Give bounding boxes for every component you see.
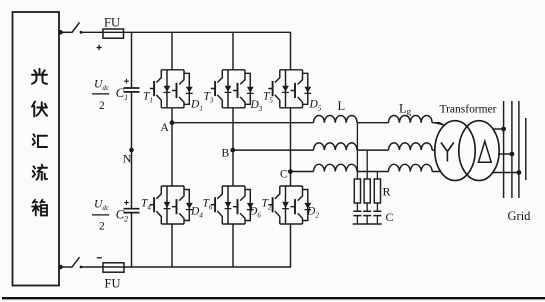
inductor L phase B [314,143,358,150]
svg-text:FU: FU [105,277,121,291]
wire: T6 emitter to DC- bus [232,224,234,267]
switch S+ contact dot [80,31,83,34]
polarity + mark of C2 [124,200,129,205]
svg-text:2: 2 [99,100,105,112]
wire: T2 collector from node C [290,172,292,187]
resistor R phase C [374,179,380,203]
inductor Lg phase C [389,164,433,171]
svg-text:C: C [386,210,394,224]
svg-text:T1: T1 [143,91,153,105]
fuse FU (bottom) [103,263,124,272]
polarity - mark (bottom bus) [97,257,102,259]
IGBT module T6 with antiparallel diode D6 [211,186,254,224]
wire: DC- bus from box to switch [59,266,72,268]
svg-text:2: 2 [99,221,105,233]
delta symbol [479,141,492,162]
wire: T2 emitter to DC- bus [290,224,292,267]
node dot grid phase 1 [501,127,506,132]
wire: C2 to DC- bus [131,213,133,267]
capacitor C2 [124,209,140,213]
wire: T1 leg from DC+ bus [171,32,173,70]
svg-text:A: A [161,122,170,134]
switch S+ blade [72,23,80,34]
svg-text:B: B [222,148,230,160]
node B dot [230,148,235,153]
wire: star point bus [353,223,382,225]
wire: R to C stub phase B [366,203,368,211]
svg-text:C: C [280,169,288,181]
inductor L phase A [314,116,358,123]
wire: DC midlink C1 to C2 through node N [131,92,133,209]
wire: T5 leg from DC+ bus [290,32,292,70]
node C dot [288,169,293,174]
svg-text:D2: D2 [306,206,319,220]
node dot grid phase 3 [517,170,522,175]
resistor R phase B [364,179,370,203]
transformer secondary winding circle [459,121,499,181]
IGBT module T5 with antiparallel diode D5 [268,70,311,108]
wire: DC+ bus from box to switch [59,31,72,33]
svg-text:D5: D5 [309,99,322,113]
label 箱 [32,200,47,216]
wire: T4 emitter to DC- bus [171,224,173,267]
wire: transformer tap to grid phase 3 [493,172,519,174]
node dot grid phase 2 [510,152,515,157]
wire: transformer tap to grid phase 1 [493,128,504,130]
wire: T6 collector from node B [232,150,234,186]
svg-text:T4: T4 [141,198,151,212]
capacitor C phase C [373,211,381,215]
capacitor C1 [124,88,140,92]
svg-text:T3: T3 [204,91,214,105]
capacitor C phase B [363,211,371,215]
svg-text:T2: T2 [262,198,272,212]
capacitor C phase A [353,211,361,215]
wire: DC+ bus through fuse to T5 leg [81,31,291,33]
wire: RC tap phase B [366,150,368,179]
PV combiner box (光伏汇流箱) [13,12,60,286]
svg-text:R: R [383,184,391,198]
grid bus bar 2 [511,101,513,198]
switch S- blade [72,257,80,268]
svg-text:D4: D4 [190,206,203,220]
svg-text:FU: FU [104,16,120,30]
label 汇 [33,134,47,147]
polarity + mark (top bus) [97,45,102,50]
wire: DC midpoint branch upper (bus to C1) [131,32,133,88]
Y (wye) symbol [441,143,454,162]
svg-text:L: L [338,99,346,113]
wire: transformer tap to grid phase 2 [499,153,512,155]
node A dot [170,120,175,125]
svg-text:Udc: Udc [94,199,110,213]
IGBT module T3 with antiparallel diode D3 [211,70,254,108]
grid bus bar 1 [503,101,505,198]
wire: DC- bus through fuse to T2 leg [81,266,291,268]
switch S- contact dot [80,266,83,269]
wire: R to C stub phase A [356,203,358,211]
polarity + mark of C1 [124,79,129,84]
IGBT module T2 with antiparallel diode D2 [268,186,311,224]
fuse FU (top) [103,29,124,38]
inductor L phase C [314,164,358,171]
IGBT module T4 with antiparallel diode D4 [150,186,193,224]
wire: T3 leg from DC+ bus [232,32,234,70]
wire: R to C stub phase C [376,203,378,211]
wire: RC tap phase C [376,172,378,180]
node: junction dot at box - terminal [58,265,63,270]
wire: T1 emitter to node A [171,108,173,123]
svg-text:D6: D6 [248,206,261,220]
label 流 [33,165,47,180]
inductor Lg phase B [389,143,433,150]
wire: capacitor stubs to star point [357,216,377,224]
node N dot [129,148,134,153]
label 光 [32,69,47,84]
wire: RC tap phase A [356,123,358,179]
wire: T3 emitter to node B [232,108,234,150]
IGBT module T1 with antiparallel diode D1 [150,70,193,108]
svg-text:C2: C2 [116,208,128,224]
node: junction dot at box + terminal [58,30,63,35]
page rule at bottom [2,297,545,299]
svg-text:Lg: Lg [399,102,412,117]
svg-text:N: N [123,152,132,166]
svg-text:Transformer: Transformer [440,102,497,116]
svg-text:Grid: Grid [508,209,532,223]
label 伏 [32,102,47,117]
inductor Lg phase A [389,116,433,123]
svg-text:D3: D3 [250,99,263,113]
grid bus bar 3 [518,101,520,198]
wire: T5 emitter to node C [290,108,292,172]
transformer primary winding circle [435,121,475,181]
resistor R phase A [354,179,360,203]
wire: T4 collector from node A [171,123,173,186]
svg-text:D1: D1 [190,99,203,113]
svg-text:Udc: Udc [94,78,110,92]
wire: phase C line to filter [291,171,441,173]
grid bus bar 4 [525,118,527,180]
wire: phase B line to filter [233,149,436,151]
svg-text:T6: T6 [203,198,213,212]
wire: phase A line to filter [172,123,445,126]
